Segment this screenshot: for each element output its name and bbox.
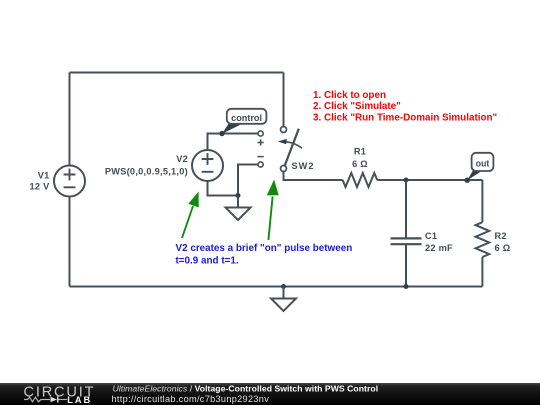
footer title text xyxy=(112,383,379,404)
label R1 value xyxy=(352,147,368,169)
label - control pin xyxy=(258,156,264,158)
wire V2 bottom xyxy=(208,181,239,196)
wire V1 bottom vertical xyxy=(69,197,71,287)
svg-text:V1: V1 xyxy=(38,171,50,181)
svg-text:PWS(0,0,0.9,5,1,0): PWS(0,0,0.9,5,1,0) xyxy=(105,166,188,176)
annotation green arrow left xyxy=(182,192,199,239)
svg-text:V2: V2 xyxy=(176,154,188,164)
net flag out xyxy=(467,153,493,181)
label V1 value xyxy=(29,171,50,192)
wire switch bottom to R1 xyxy=(284,172,343,181)
node junction out xyxy=(465,178,470,183)
voltage source V1 xyxy=(54,166,85,197)
svg-text:6 Ω: 6 Ω xyxy=(495,243,511,253)
wire top rail xyxy=(70,72,284,74)
annotation red instructions xyxy=(313,90,498,124)
label C1 value xyxy=(425,231,453,253)
annotation green arrow right xyxy=(267,180,279,241)
resistor R1 xyxy=(343,173,378,187)
svg-text:V2 creates a brief "on" pulse: V2 creates a brief "on" pulse between xyxy=(176,243,353,254)
ground V2 xyxy=(226,196,251,221)
wire bottom rail xyxy=(70,286,483,288)
wire switch top vertical xyxy=(283,73,285,127)
wire V2 top xyxy=(208,134,258,151)
node junction control xyxy=(219,131,224,136)
net flag control xyxy=(222,109,266,134)
footer logo CircuitLab xyxy=(24,385,96,405)
wire C1 bottom xyxy=(405,244,407,286)
svg-text:2. Click "Simulate": 2. Click "Simulate" xyxy=(313,101,401,112)
terminal + of SW2 control xyxy=(258,131,263,136)
node junction C1 top xyxy=(404,178,409,183)
node junction V2 ground xyxy=(236,193,241,198)
annotation blue note xyxy=(176,243,353,266)
wire R1 to out corner xyxy=(377,179,482,181)
wire V1 top vertical xyxy=(69,73,71,166)
svg-text:http://circuitlab.com/c7b3unp2: http://circuitlab.com/c7b3unp2923nv xyxy=(112,394,270,404)
wire C1 top xyxy=(405,180,407,238)
capacitor C1 xyxy=(391,238,422,244)
node junction at main ground xyxy=(281,284,286,289)
wire R2 top xyxy=(481,180,483,222)
svg-text:out: out xyxy=(476,159,490,169)
label + control pin xyxy=(258,139,264,145)
voltage source V2 xyxy=(192,150,223,181)
label V2 value xyxy=(105,154,188,176)
svg-text:1. Click to open: 1. Click to open xyxy=(313,90,386,101)
svg-text:t=0.9 and t=1.: t=0.9 and t=1. xyxy=(176,255,239,266)
svg-text:22 mF: 22 mF xyxy=(425,243,453,253)
svg-text:C1: C1 xyxy=(425,231,437,241)
svg-text:LAB: LAB xyxy=(67,395,92,405)
node junction C1 bottom xyxy=(404,284,409,289)
svg-text:3. Click "Run Time-Domain Simu: 3. Click "Run Time-Domain Simulation" xyxy=(313,113,498,124)
ground main xyxy=(271,287,296,312)
svg-text:6 Ω: 6 Ω xyxy=(352,159,368,169)
resistor R2 xyxy=(476,222,490,257)
svg-text:UltimateElectronics / Voltage-: UltimateElectronics / Voltage-Controlled… xyxy=(113,383,379,393)
svg-text:control: control xyxy=(231,113,262,123)
switch SW2 xyxy=(278,127,302,172)
svg-text:R1: R1 xyxy=(354,147,366,157)
svg-text:R2: R2 xyxy=(495,231,507,241)
svg-text:12 V: 12 V xyxy=(29,182,50,192)
svg-text:SW2: SW2 xyxy=(292,161,315,171)
wire R2 bottom xyxy=(481,257,483,287)
footer bar xyxy=(0,383,540,405)
terminal - of SW2 control xyxy=(258,162,263,167)
wire control minus to ground xyxy=(238,165,258,196)
label SW2 xyxy=(292,161,315,171)
label R2 value xyxy=(495,231,511,253)
